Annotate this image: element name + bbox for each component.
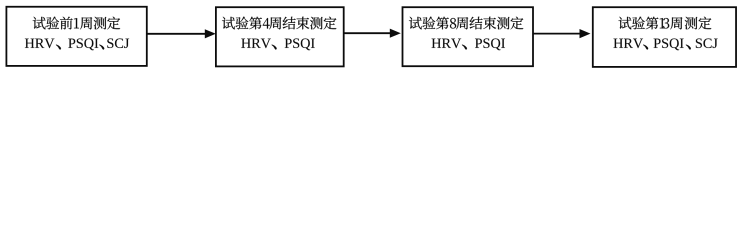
arrow 3 (connector) — [533, 29, 590, 38]
box 2 — [216, 7, 344, 66]
text box1 line1: 试验前1周测定 — [33, 17, 120, 30]
text box1 line2: HRV、PSQI、SCJ — [25, 38, 129, 50]
box 4 — [593, 7, 736, 67]
text box3 line1: 试验第8周结束测定 — [409, 17, 523, 30]
text box3 line2: HRV、PSQI — [432, 38, 505, 50]
text box4 line1: 试验第13周测定 — [619, 17, 712, 30]
box 3 — [403, 7, 534, 66]
text box4 line2: HRV、PSQI、SCJ — [614, 38, 718, 50]
arrow 1 (connector) — [147, 29, 216, 38]
text box2 line2: HRV、PSQI — [241, 38, 314, 50]
box 1 — [6, 7, 146, 66]
arrow 2 (connector) — [344, 29, 401, 38]
text box2 line1: 试验第4周结束测定 — [222, 17, 336, 30]
